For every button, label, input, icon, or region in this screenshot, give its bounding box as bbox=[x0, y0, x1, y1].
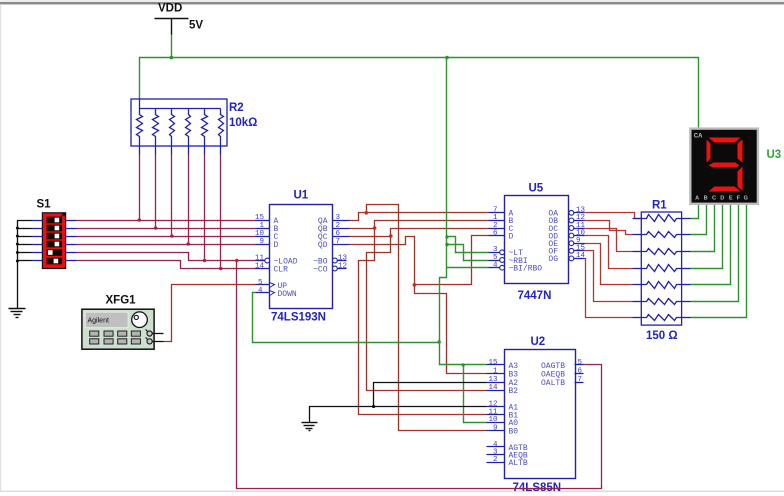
svg-text:B0: B0 bbox=[509, 427, 519, 436]
wire U5.OG to R1.7 bbox=[585, 259, 633, 318]
svg-text:E: E bbox=[729, 195, 733, 201]
wire net QB: U1.QB to U5.B and U2.B1 bbox=[350, 221, 489, 415]
svg-text:10: 10 bbox=[255, 230, 265, 238]
U1 left pin stubs bbox=[256, 221, 270, 293]
svg-text:1: 1 bbox=[493, 367, 498, 375]
svg-text:CA: CA bbox=[694, 134, 703, 140]
wires from R2 pull-up resistors down to switch nets bbox=[140, 155, 221, 269]
wire S1.1 to U1.A bbox=[77, 220, 256, 222]
U2 pin numbers bbox=[488, 359, 582, 464]
svg-text:U3: U3 bbox=[767, 149, 782, 161]
svg-text:D: D bbox=[274, 241, 279, 250]
svg-text:12: 12 bbox=[488, 400, 497, 408]
svg-text:14: 14 bbox=[255, 262, 265, 270]
svg-text:5: 5 bbox=[578, 359, 583, 367]
svg-text:6: 6 bbox=[336, 230, 341, 238]
wire S1.5 to U1.~LOAD bbox=[77, 253, 256, 261]
junction R2 column at (139.3,220) bbox=[138, 218, 142, 222]
svg-text:F: F bbox=[737, 195, 741, 201]
U5 left pin stubs bbox=[489, 213, 505, 268]
ground symbol (S1) bbox=[9, 309, 26, 318]
svg-text:5: 5 bbox=[258, 279, 263, 287]
junction S1 ground bus at 252.5 bbox=[16, 251, 19, 254]
wire R1.1 to U3 segment A bbox=[691, 204, 699, 219]
svg-text:10: 10 bbox=[488, 416, 498, 424]
svg-text:B: B bbox=[704, 195, 708, 201]
svg-text:VDD: VDD bbox=[158, 3, 182, 15]
S1 pin stubs (both sides) bbox=[32, 221, 77, 261]
svg-text:5V: 5V bbox=[189, 20, 203, 32]
junction S1 ground bus at 261 bbox=[16, 260, 19, 263]
svg-text:Agilent: Agilent bbox=[88, 317, 109, 324]
wire S1.6 to U1.CLR bbox=[77, 261, 256, 269]
U5 pin numbers bbox=[493, 207, 586, 270]
svg-text:74LS193N: 74LS193N bbox=[271, 312, 326, 324]
wire S1 common to ground (black net) bbox=[18, 221, 32, 309]
svg-text:7: 7 bbox=[578, 376, 583, 384]
svg-text:14: 14 bbox=[488, 384, 498, 392]
power symbol VDD bbox=[155, 19, 189, 35]
svg-text:3: 3 bbox=[336, 214, 341, 222]
svg-text:6: 6 bbox=[578, 367, 583, 375]
svg-text:A: A bbox=[695, 195, 699, 201]
junction green at U1.DOWN branch bbox=[438, 340, 441, 343]
wire net QD: U1.QD to U5.D and U2.B3 bbox=[350, 236, 489, 374]
display U3 seven-segment (common anode) bbox=[690, 129, 758, 204]
junction R2 column at (204.5,260.5) bbox=[203, 259, 207, 263]
svg-text:XFG1: XFG1 bbox=[106, 295, 137, 307]
wire net QA: U1.QA to U5.A and U2.B0 bbox=[350, 205, 489, 431]
U1 ~BO bubble bbox=[333, 258, 338, 263]
U1 DOWN clock wedge pin 4 bbox=[270, 291, 275, 296]
wire R1.5 to U3 segment E bbox=[691, 204, 731, 285]
switch S1 (6-position DIP, red) bbox=[42, 213, 65, 269]
junction S1 ground bus at 236 bbox=[16, 235, 19, 238]
U5 ~LT bubble bbox=[500, 250, 505, 255]
window left border bbox=[0, 5, 1, 491]
resistor pack R1 150 ohm (box with 7 resistors) bbox=[641, 212, 681, 325]
junction R2 column at (171.9,236) bbox=[170, 234, 174, 238]
svg-text:15: 15 bbox=[255, 214, 265, 222]
R1 pin stubs bbox=[633, 219, 691, 318]
window bottom border bbox=[0, 491, 784, 493]
svg-text:13: 13 bbox=[488, 376, 498, 384]
wire U5.OA to R1.1 bbox=[585, 213, 642, 219]
junction on VDD rail at stem bbox=[170, 56, 174, 60]
svg-text:2: 2 bbox=[493, 456, 498, 464]
U5 ~RBI bubble bbox=[500, 258, 505, 263]
svg-text:OG: OG bbox=[548, 255, 558, 264]
svg-text:7447N: 7447N bbox=[518, 290, 552, 302]
wire R1.7 to U3 segment G bbox=[691, 204, 747, 318]
svg-text:~BI/RBO: ~BI/RBO bbox=[509, 265, 543, 274]
svg-text:4: 4 bbox=[493, 262, 498, 270]
svg-text:ALTB: ALTB bbox=[509, 459, 528, 468]
U1 pin names bbox=[274, 217, 328, 299]
wire U5.OB to R1.2 bbox=[585, 221, 633, 235]
wire XFG1 output to U1.UP (clock) bbox=[164, 285, 256, 342]
XFG1 buttons bbox=[90, 331, 141, 344]
svg-text:D: D bbox=[509, 232, 514, 241]
U3 digit 9 segment B (upper right) bbox=[738, 140, 743, 163]
junction on VDD rail at U5 branch bbox=[445, 56, 449, 60]
svg-text:G: G bbox=[744, 195, 748, 201]
U3 digit 9 segment G (middle) bbox=[709, 163, 740, 168]
svg-text:14: 14 bbox=[576, 252, 586, 260]
U3 digit 9 segment A (top) bbox=[709, 138, 741, 143]
U3 digit 9 segment D (bottom) bbox=[709, 187, 741, 192]
XFG1 terminal leads (black) bbox=[153, 334, 164, 342]
U3 segment pin letters bbox=[695, 195, 748, 201]
U1 pin numbers bbox=[255, 214, 348, 295]
wire net QC: U1.QC to U5.C and U2.B2 bbox=[350, 229, 489, 391]
wire VDD rail (green net from VDD to R2, U5 control pins, U3 CA) bbox=[140, 35, 699, 130]
junction black at A2 branch bbox=[372, 405, 375, 408]
svg-text:11: 11 bbox=[255, 254, 265, 262]
U1 ~CO bubble bbox=[333, 266, 338, 271]
svg-text:10kΩ: 10kΩ bbox=[229, 117, 257, 129]
IC U2 74LS85N (box) bbox=[505, 350, 576, 479]
wire S1.4 to U1.D bbox=[77, 244, 256, 246]
wire R1.3 to U3 segment C bbox=[691, 204, 715, 252]
svg-text:S1: S1 bbox=[37, 199, 52, 211]
svg-text:150 Ω: 150 Ω bbox=[646, 330, 678, 342]
ground symbol (U2) bbox=[302, 423, 318, 431]
junction R2 column at (220.8,268.5) bbox=[219, 267, 223, 271]
wire U5.OD to R1.4 bbox=[585, 236, 633, 269]
svg-text:R1: R1 bbox=[652, 200, 667, 212]
XFG1 output terminals bbox=[146, 330, 153, 345]
junction feedback on ~LOAD line bbox=[235, 259, 239, 263]
svg-text:OALTB: OALTB bbox=[541, 379, 565, 388]
IC U1 74LS193N (box) bbox=[270, 205, 333, 309]
svg-text:D: D bbox=[720, 195, 724, 201]
window top border bbox=[0, 0, 784, 5]
U2 pin names bbox=[509, 362, 566, 468]
instrument XFG1 function generator bbox=[82, 309, 154, 349]
U5 ~BI/RBO bubble bbox=[500, 265, 505, 270]
junction green at U2.A3 branch bbox=[462, 363, 465, 366]
svg-text:U2: U2 bbox=[531, 336, 546, 348]
svg-text:2: 2 bbox=[336, 222, 341, 230]
svg-text:~CO: ~CO bbox=[313, 265, 328, 274]
svg-text:13: 13 bbox=[338, 254, 348, 262]
R2 pin stubs bbox=[140, 147, 221, 155]
U1 UP clock wedge pin 5 bbox=[270, 283, 275, 288]
svg-text:DOWN: DOWN bbox=[278, 290, 297, 299]
wire S1.2 to U1.B bbox=[77, 228, 256, 230]
svg-text:4: 4 bbox=[258, 287, 263, 295]
IC U5 7447N (box) bbox=[505, 196, 569, 284]
svg-text:7: 7 bbox=[336, 238, 341, 246]
wire U5.OE to R1.5 bbox=[585, 244, 633, 285]
U2 left pin stubs bbox=[487, 365, 505, 463]
svg-text:9: 9 bbox=[493, 424, 498, 432]
svg-text:15: 15 bbox=[488, 359, 498, 367]
svg-text:U1: U1 bbox=[294, 190, 309, 202]
svg-text:CLR: CLR bbox=[274, 265, 289, 274]
U3 digit 9 segment C (lower right) bbox=[738, 167, 743, 191]
svg-text:C: C bbox=[712, 195, 716, 201]
wire R1.4 to U3 segment D bbox=[691, 204, 723, 269]
U5 right pin stubs with bubbles bbox=[574, 213, 585, 259]
U5 pin names bbox=[509, 210, 559, 274]
U1 right pin stubs QA QB QC QD bbox=[333, 221, 350, 269]
U3 digit 9 segment F (upper left) bbox=[707, 140, 711, 163]
wire S1.3 to U1.C bbox=[77, 236, 256, 238]
svg-text:12: 12 bbox=[338, 262, 347, 270]
wire R1.2 to U3 segment B bbox=[691, 204, 707, 235]
wire U5.OC to R1.3 bbox=[585, 229, 633, 252]
junction R2 column at (155.6,228) bbox=[154, 226, 158, 230]
U1 ~LOAD input bubble bbox=[265, 258, 270, 263]
wire U5.OF to R1.6 bbox=[585, 251, 633, 302]
svg-text:9: 9 bbox=[259, 238, 264, 246]
svg-text:1: 1 bbox=[259, 222, 264, 230]
wire R1.6 to U3 segment F bbox=[691, 204, 739, 302]
svg-text:R2: R2 bbox=[229, 102, 244, 114]
U2 right pin stubs bbox=[575, 365, 584, 383]
svg-text:B2: B2 bbox=[509, 387, 519, 396]
wire green net: VDD rail to U5 ~LT ~RBI ~BI/RBO, U1.DOWN, U2.A3 A0 bbox=[253, 58, 489, 423]
resistor pack R2 10k (box with 6 resistors) bbox=[131, 99, 227, 147]
junction S1 ground bus at 228 bbox=[16, 227, 19, 230]
junction green at U5 ~RBI branch bbox=[445, 243, 448, 246]
svg-text:QD: QD bbox=[318, 241, 328, 250]
junction S1 ground bus at 244 bbox=[16, 243, 19, 246]
junction R2 column at (188.2,244) bbox=[186, 242, 190, 246]
junction green at U5 ~LT branch bbox=[445, 235, 448, 238]
svg-text:6: 6 bbox=[493, 229, 498, 237]
wire feedback U2.OAGTB to U1.~LOAD (wine) bbox=[237, 261, 602, 489]
svg-text:U5: U5 bbox=[529, 183, 544, 195]
wire ground net to U2.A1 and U2.A2 (black) bbox=[310, 383, 487, 423]
